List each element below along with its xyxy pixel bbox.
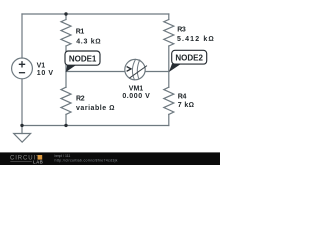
ground triangle: [14, 134, 31, 143]
ground stub: [21, 126, 23, 134]
junction dot bottom R2: [64, 124, 67, 127]
svg-text:VM1: VM1: [129, 86, 143, 93]
wire top rail: [22, 13, 169, 15]
wire node1 to voltmeter: [66, 71, 125, 73]
voltmeter needle: [129, 66, 147, 79]
voltmeter gauge arc 2: [137, 60, 140, 79]
svg-text:4.3 kΩ: 4.3 kΩ: [76, 39, 101, 46]
svg-text:7 kΩ: 7 kΩ: [178, 102, 194, 109]
junction dot bottom V1: [20, 124, 23, 127]
wire R1 top stub: [65, 14, 67, 20]
svg-text:5.412 kΩ: 5.412 kΩ: [177, 36, 214, 43]
resistor R3: [164, 20, 174, 46]
voltage source V1 body: [12, 58, 33, 79]
wire R1 bottom stub: [65, 46, 67, 72]
footer logo rule: [10, 160, 32, 163]
svg-text:NODE2: NODE2: [175, 53, 203, 62]
resistor R2: [61, 87, 71, 114]
voltmeter VM1 body: [125, 59, 145, 79]
svg-text:variable Ω: variable Ω: [76, 105, 115, 112]
wire R4 top stub: [168, 72, 170, 88]
wire left branch lower: [21, 79, 23, 126]
wire voltmeter to node2: [145, 71, 169, 73]
V1 minus sign: [19, 72, 25, 74]
junction dot top R1: [64, 12, 67, 15]
wire R3 bottom stub: [168, 46, 170, 72]
svg-text:http://circuitlab.com/c/8fne74: http://circuitlab.com/c/8fne74cd3jk: [55, 158, 118, 162]
svg-text:0.000 V: 0.000 V: [122, 93, 150, 100]
wire R4 bottom stub: [168, 114, 170, 125]
V1 plus sign: [19, 61, 25, 73]
svg-text:LAB: LAB: [33, 160, 43, 165]
wire R3 top stub: [168, 14, 170, 20]
wire bottom rail: [22, 125, 169, 127]
footer bar: [0, 152, 220, 165]
voltmeter gauge arc 1: [132, 59, 135, 80]
svg-text:R4: R4: [178, 93, 187, 100]
footer logo orange square: [38, 155, 43, 160]
node NODE2 flag box: [172, 50, 207, 64]
node NODE1 flag tail: [66, 65, 77, 72]
svg-text:R3: R3: [177, 27, 186, 34]
svg-text:R2: R2: [76, 96, 85, 103]
svg-text:V1: V1: [37, 62, 46, 69]
wire R2 top stub: [65, 72, 67, 88]
node NODE2 flag tail: [169, 64, 181, 72]
svg-text:R1: R1: [76, 29, 85, 36]
wire left branch upper: [21, 14, 23, 58]
resistor R1: [61, 20, 71, 46]
resistor R4: [164, 87, 174, 114]
voltmeter arrow: [127, 67, 131, 72]
svg-text:NODE1: NODE1: [69, 54, 97, 63]
wire R2 bottom stub: [65, 114, 67, 125]
svg-text:10 V: 10 V: [37, 70, 54, 77]
node NODE1 flag box: [65, 51, 100, 65]
